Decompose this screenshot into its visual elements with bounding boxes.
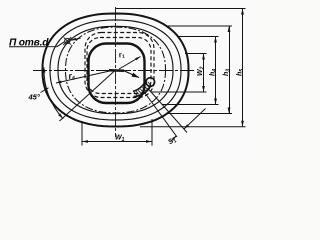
S1 dimension line lower bbox=[171, 136, 177, 142]
dimension h5 bottom extension line bbox=[140, 126, 246, 128]
hidden cavity contour D1 (dashed) bbox=[85, 33, 154, 98]
svg-text:r1: r1 bbox=[118, 49, 126, 60]
section band inner edge bbox=[133, 80, 147, 91]
svg-text:h5: h5 bbox=[237, 69, 245, 76]
curl leader bbox=[124, 71, 139, 78]
hole label leader bbox=[9, 42, 64, 47]
45deg dimension arc bbox=[44, 69, 63, 119]
vertical centerline bbox=[115, 7, 117, 137]
hidden cavity contour D2 (dashed) bbox=[87, 38, 151, 94]
contour E3 bbox=[58, 26, 173, 113]
section hatching bbox=[134, 82, 151, 96]
dimension W2 bottom extension line bbox=[151, 91, 207, 93]
dimension W2 top extension line bbox=[185, 53, 207, 55]
inner opening (thick) bbox=[89, 44, 145, 104]
svg-text:П отв.d: П отв.d bbox=[9, 38, 49, 49]
W1 right extension line bbox=[151, 119, 153, 146]
radius r6 line bbox=[56, 70, 113, 83]
dimension h3 bottom extension line bbox=[167, 113, 232, 115]
dimension h4 dimension line bbox=[215, 37, 217, 105]
dimension h5 top extension line bbox=[116, 8, 246, 10]
svg-text:h4: h4 bbox=[210, 69, 218, 76]
hole symbol bbox=[63, 37, 71, 45]
hole arrow from right bbox=[71, 38, 81, 40]
dimension h4 bottom extension line bbox=[162, 104, 219, 106]
S1 dimension line upper bbox=[184, 109, 206, 130]
svg-text:h3: h3 bbox=[223, 69, 231, 76]
dimension W2 dimension line bbox=[203, 54, 205, 93]
W1 left extension line bbox=[81, 121, 83, 146]
dimension h4 top extension line bbox=[178, 36, 219, 38]
svg-text:S1: S1 bbox=[167, 136, 177, 146]
svg-text:r6: r6 bbox=[68, 70, 76, 82]
section curl circle bbox=[146, 78, 155, 87]
r1 radius line bbox=[119, 57, 141, 70]
S1 extension line 2 bbox=[144, 91, 178, 137]
45deg label leader bbox=[41, 88, 49, 93]
outer contour E1 bbox=[43, 14, 189, 127]
r1 thick tail bbox=[109, 69, 124, 72]
S1 extension line 1 bbox=[148, 88, 188, 133]
dimension h3 top extension line bbox=[166, 25, 232, 27]
dimension h5 dimension line bbox=[242, 9, 244, 127]
contour E2 bbox=[50, 20, 181, 120]
bolt-circle centerline E4 (dash-dot) bbox=[66, 27, 166, 113]
dimension h3 dimension line bbox=[229, 26, 231, 114]
section band outer edge bbox=[134, 85, 152, 96]
horizontal centerline bbox=[33, 70, 196, 72]
svg-text:45°: 45° bbox=[28, 93, 41, 102]
W1 dimension line bbox=[82, 141, 152, 143]
45deg radius line bbox=[60, 70, 116, 121]
svg-text:W2: W2 bbox=[197, 66, 205, 76]
